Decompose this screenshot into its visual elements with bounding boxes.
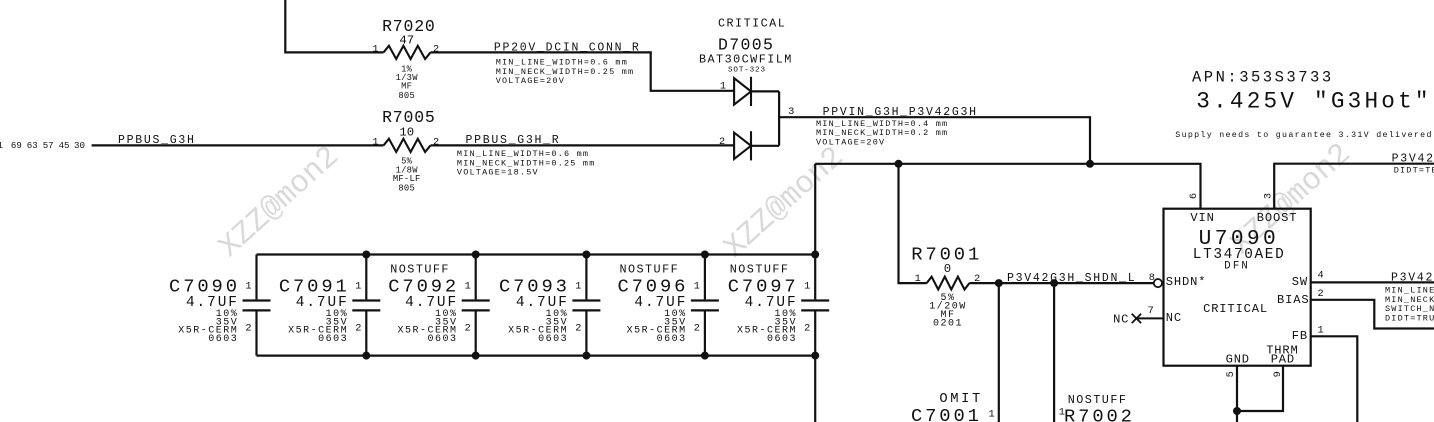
svg-text:SW: SW bbox=[1292, 275, 1308, 289]
wire U7090 FB pin 1 down off sheet bbox=[1311, 336, 1358, 422]
svg-text:1: 1 bbox=[804, 281, 810, 293]
svg-text:4: 4 bbox=[1318, 270, 1324, 282]
svg-text:1: 1 bbox=[372, 43, 378, 55]
svg-text:7: 7 bbox=[1148, 305, 1154, 317]
net label P3V42G3H on SW wire with properties bbox=[1385, 271, 1434, 323]
svg-text:GND: GND bbox=[1226, 353, 1250, 367]
capacitor bank top rail bbox=[257, 253, 816, 255]
svg-text:FB: FB bbox=[1292, 329, 1308, 343]
svg-text:PPBUS_G3H_R: PPBUS_G3H_R bbox=[466, 134, 561, 147]
svg-text:NOSTUFF: NOSTUFF bbox=[390, 263, 450, 277]
svg-text:0603: 0603 bbox=[657, 334, 687, 345]
wire U7090 GND pin 5 and THRM PAD pin 9 to ground net bbox=[1237, 366, 1283, 422]
wire net PP20V_DCIN_CONN_R from R7020 pin 2 to diode D7005 pin 1 bbox=[431, 52, 735, 90]
U7090 pin 7 NC stub with no-connect X bbox=[1113, 305, 1163, 326]
resistor R7002 NOSTUFF (labels at sheet bottom) bbox=[1059, 393, 1135, 422]
svg-text:6: 6 bbox=[1188, 193, 1200, 199]
svg-text:69: 69 bbox=[11, 140, 22, 151]
svg-text:1: 1 bbox=[575, 281, 581, 293]
capacitor C7096 4.7UF NOSTUFF bbox=[617, 255, 718, 356]
capacitor bank bottom rail bbox=[257, 355, 816, 357]
wire from bus junction down to resistor R7001 pin 1 bbox=[899, 164, 927, 283]
svg-text:P3V42G3H_SHDN_L: P3V42G3H_SHDN_L bbox=[1007, 272, 1136, 285]
svg-text:R7002: R7002 bbox=[1064, 406, 1135, 422]
svg-text:CRITICAL: CRITICAL bbox=[718, 17, 786, 31]
net label PPVIN_G3H_P3V42G3H with properties bbox=[816, 106, 978, 147]
svg-text:3: 3 bbox=[788, 106, 794, 118]
svg-text:0603: 0603 bbox=[538, 334, 568, 345]
U7090 pin 8 SHDN inversion bubble bbox=[1154, 279, 1162, 287]
junction at GND/THRM tie bbox=[1233, 407, 1241, 415]
svg-text:CRITICAL: CRITICAL bbox=[1203, 302, 1268, 316]
junction on bus at R7001 branch bbox=[895, 160, 903, 168]
svg-text:1: 1 bbox=[915, 273, 921, 285]
svg-text:0603: 0603 bbox=[427, 334, 457, 345]
svg-text:1: 1 bbox=[372, 136, 378, 148]
svg-text:45: 45 bbox=[59, 140, 70, 151]
capacitor C7091 4.7UF bbox=[279, 255, 380, 356]
svg-text:0603: 0603 bbox=[318, 334, 348, 345]
svg-text:0: 0 bbox=[944, 262, 951, 276]
svg-text:SHDN*: SHDN* bbox=[1166, 275, 1207, 289]
svg-text:10: 10 bbox=[399, 126, 414, 140]
off-sheet reference numbers for PPBUS_G3H bbox=[0, 140, 85, 151]
svg-text:BIAS: BIAS bbox=[1277, 293, 1309, 307]
capacitor C7093 4.7UF bbox=[499, 255, 600, 356]
svg-text:BAT30CWFILM: BAT30CWFILM bbox=[699, 53, 793, 67]
svg-text:0603: 0603 bbox=[767, 334, 797, 345]
wire U7090 BOOST pin 3 to net P3V42G3H at right edge bbox=[1274, 164, 1434, 209]
svg-text:1: 1 bbox=[694, 281, 700, 293]
svg-text:PPBUS_G3H: PPBUS_G3H bbox=[118, 134, 196, 147]
svg-text:1: 1 bbox=[0, 140, 4, 151]
svg-text:805: 805 bbox=[398, 184, 415, 194]
wire PP20V_DCIN_CONN input from top edge to R7020 pin 1 bbox=[285, 0, 383, 52]
net label PPBUS_G3H_R with properties bbox=[457, 134, 596, 177]
svg-text:0201: 0201 bbox=[933, 319, 963, 330]
svg-text:1: 1 bbox=[720, 80, 726, 92]
wire net P3V42G3H_SHDN_L from R7001 pin 2 to U7090 SHDN pin 8 bbox=[969, 282, 1153, 284]
svg-text:PAD: PAD bbox=[1271, 353, 1295, 367]
wire down to resistor R7002 bbox=[1053, 283, 1055, 422]
net label P3V42G3H on BOOST wire with property bbox=[1392, 153, 1434, 176]
svg-text:APN:353S3733: APN:353S3733 bbox=[1192, 68, 1334, 86]
svg-text:1: 1 bbox=[355, 281, 361, 293]
wire U7090 SW pin 4 to net P3V42G3H at right edge bbox=[1311, 281, 1434, 283]
svg-text:XZZ@mon2: XZZ@mon2 bbox=[212, 140, 346, 266]
net label PP20V_DCIN_CONN_R with properties bbox=[494, 42, 641, 86]
svg-text:63: 63 bbox=[27, 140, 38, 151]
svg-text:Supply needs to guarantee 3.31: Supply needs to guarantee 3.31V delivere… bbox=[1175, 130, 1434, 140]
svg-text:P3V42G3H: P3V42G3H bbox=[1392, 153, 1434, 166]
dual diode D7005 BAT30CWFILM bbox=[699, 17, 794, 161]
svg-text:DIDT=TRUE: DIDT=TRUE bbox=[1385, 313, 1434, 323]
junction on bus at diode feed bbox=[1086, 160, 1094, 168]
capacitor C7001 OMIT (labels at sheet bottom) bbox=[911, 392, 995, 422]
svg-text:1: 1 bbox=[465, 281, 471, 293]
wire net PPBUS_G3H_R from R7005 pin 2 to diode D7005 pin 2 bbox=[431, 144, 735, 146]
svg-text:DIDT=TEST: DIDT=TEST bbox=[1394, 165, 1434, 175]
svg-text:1: 1 bbox=[1059, 407, 1065, 419]
svg-text:VOLTAGE=18.5V: VOLTAGE=18.5V bbox=[457, 168, 539, 178]
svg-text:1: 1 bbox=[989, 408, 995, 420]
svg-text:2: 2 bbox=[719, 136, 725, 148]
svg-text:SOT-323: SOT-323 bbox=[728, 67, 766, 75]
svg-text:NC: NC bbox=[1166, 311, 1182, 325]
svg-text:NC: NC bbox=[1113, 312, 1129, 326]
svg-text:VIN: VIN bbox=[1190, 211, 1214, 225]
svg-text:30: 30 bbox=[74, 140, 85, 151]
svg-text:DFN: DFN bbox=[1224, 261, 1250, 273]
capacitor C7097 4.7UF NOSTUFF bbox=[728, 255, 829, 356]
svg-text:5: 5 bbox=[1225, 371, 1237, 377]
IC U7090 LT3470AED buck regulator bbox=[1164, 209, 1311, 367]
wire from bottom rail down off sheet bbox=[814, 356, 816, 422]
svg-text:VOLTAGE=20V: VOLTAGE=20V bbox=[816, 137, 885, 147]
wire U7090 BIAS pin 2 to right edge bbox=[1311, 300, 1434, 329]
junction at C7001 branch bbox=[995, 279, 1003, 287]
svg-text:2: 2 bbox=[1318, 288, 1324, 300]
svg-text:PPVIN_G3H_P3V42G3H: PPVIN_G3H_P3V42G3H bbox=[823, 106, 978, 119]
wire net PPVIN_G3H_P3V42G3H from D7005 pin 3 down to bus bbox=[779, 117, 1090, 164]
svg-text:805: 805 bbox=[398, 91, 415, 101]
svg-text:57: 57 bbox=[43, 140, 54, 151]
svg-text:8: 8 bbox=[1149, 272, 1155, 284]
svg-text:2: 2 bbox=[465, 323, 471, 335]
svg-text:2: 2 bbox=[804, 323, 810, 335]
svg-text:2: 2 bbox=[694, 323, 700, 335]
wire PPVIN bus to U7090 VIN pin 6 bbox=[815, 164, 1200, 209]
svg-text:2: 2 bbox=[575, 323, 581, 335]
svg-text:C7001: C7001 bbox=[911, 405, 982, 422]
svg-text:2: 2 bbox=[433, 136, 439, 148]
svg-text:2: 2 bbox=[245, 323, 251, 335]
svg-text:3: 3 bbox=[1263, 193, 1275, 199]
svg-text:3.425V "G3Hot": 3.425V "G3Hot" bbox=[1196, 89, 1431, 115]
svg-text:0603: 0603 bbox=[208, 334, 238, 345]
svg-text:R7005: R7005 bbox=[382, 108, 436, 127]
svg-text:P3V42G3H: P3V42G3H bbox=[1391, 271, 1434, 284]
svg-text:1: 1 bbox=[245, 281, 251, 293]
svg-text:NOSTUFF: NOSTUFF bbox=[619, 263, 679, 277]
resistor R7001 bbox=[911, 244, 982, 330]
wire down to capacitor C7001 bbox=[998, 283, 1000, 422]
capacitor C7090 4.7UF bbox=[169, 255, 270, 356]
svg-text:NOSTUFF: NOSTUFF bbox=[730, 263, 790, 277]
svg-text:2: 2 bbox=[355, 323, 361, 335]
junction at R7002 branch bbox=[1050, 279, 1058, 287]
svg-text:1: 1 bbox=[1318, 325, 1324, 337]
resistor R7005 bbox=[372, 108, 439, 194]
resistor R7020 bbox=[372, 17, 439, 101]
svg-text:XZZ@mon2: XZZ@mon2 bbox=[717, 140, 851, 266]
wire net PPBUS_G3H to R7005 pin 1 bbox=[92, 144, 384, 146]
capacitor C7092 4.7UF NOSTUFF bbox=[388, 255, 489, 356]
svg-text:BOOST: BOOST bbox=[1257, 211, 1298, 225]
svg-text:9: 9 bbox=[1272, 371, 1284, 377]
svg-text:47: 47 bbox=[399, 34, 414, 48]
svg-text:VOLTAGE=20V: VOLTAGE=20V bbox=[496, 76, 565, 86]
svg-text:PP20V_DCIN_CONN_R: PP20V_DCIN_CONN_R bbox=[494, 42, 641, 55]
junctions on capacitor rails bbox=[362, 251, 819, 360]
wire from bus down to capacitor bank rail bbox=[814, 164, 816, 255]
